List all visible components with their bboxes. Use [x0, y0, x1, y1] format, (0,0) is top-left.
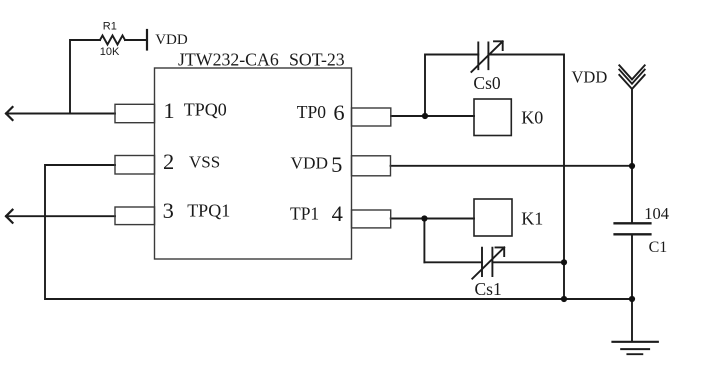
svg-text:VDD: VDD	[572, 68, 608, 87]
svg-text:5: 5	[331, 152, 342, 177]
svg-text:2: 2	[163, 149, 174, 174]
svg-text:R1: R1	[103, 21, 117, 33]
svg-text:TPQ0: TPQ0	[184, 100, 227, 120]
svg-text:VDD: VDD	[155, 32, 188, 48]
svg-text:Cs0: Cs0	[473, 73, 500, 93]
svg-text:10K: 10K	[100, 46, 120, 58]
svg-text:C1: C1	[649, 239, 668, 256]
svg-text:VSS: VSS	[189, 153, 220, 172]
svg-text:1: 1	[163, 98, 174, 123]
svg-text:TP1: TP1	[290, 204, 319, 224]
svg-text:TPQ1: TPQ1	[187, 201, 230, 221]
svg-text:4: 4	[332, 201, 343, 226]
svg-text:K0: K0	[521, 107, 543, 127]
svg-text:JTW232-CA6: JTW232-CA6	[178, 49, 279, 69]
svg-text:104: 104	[644, 204, 669, 223]
svg-text:SOT-23: SOT-23	[289, 49, 345, 69]
svg-text:TP0: TP0	[297, 102, 326, 122]
svg-text:Cs1: Cs1	[475, 279, 502, 299]
svg-text:3: 3	[163, 198, 174, 223]
svg-text:K1: K1	[521, 208, 543, 228]
svg-text:6: 6	[333, 100, 344, 125]
svg-text:VDD: VDD	[291, 153, 328, 172]
